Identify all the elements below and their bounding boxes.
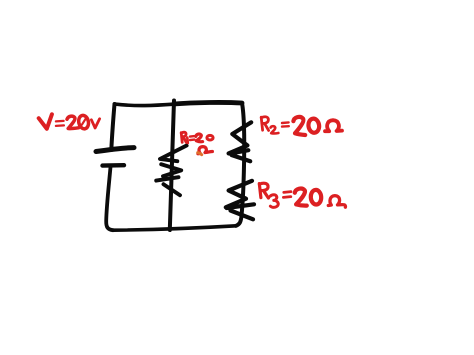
label V=20v <box>39 114 100 129</box>
battery B1 short plate <box>103 163 125 168</box>
resistor R3 <box>226 181 254 220</box>
wire bottom <box>113 226 236 230</box>
wire left upper <box>111 104 114 150</box>
wire top right segment <box>174 102 243 104</box>
label R2=20 Ohm <box>261 117 342 135</box>
resistor R1 <box>156 146 186 196</box>
wire right vertical <box>236 103 244 226</box>
label R1=20 Ohm <box>181 132 213 155</box>
label R3=20 Ohm <box>259 183 345 207</box>
wire middle branch vertical <box>170 101 174 231</box>
resistor R2 <box>229 122 252 161</box>
battery B1 long plate <box>96 148 134 152</box>
wire left lower <box>106 167 113 230</box>
wire top left segment <box>115 104 174 106</box>
